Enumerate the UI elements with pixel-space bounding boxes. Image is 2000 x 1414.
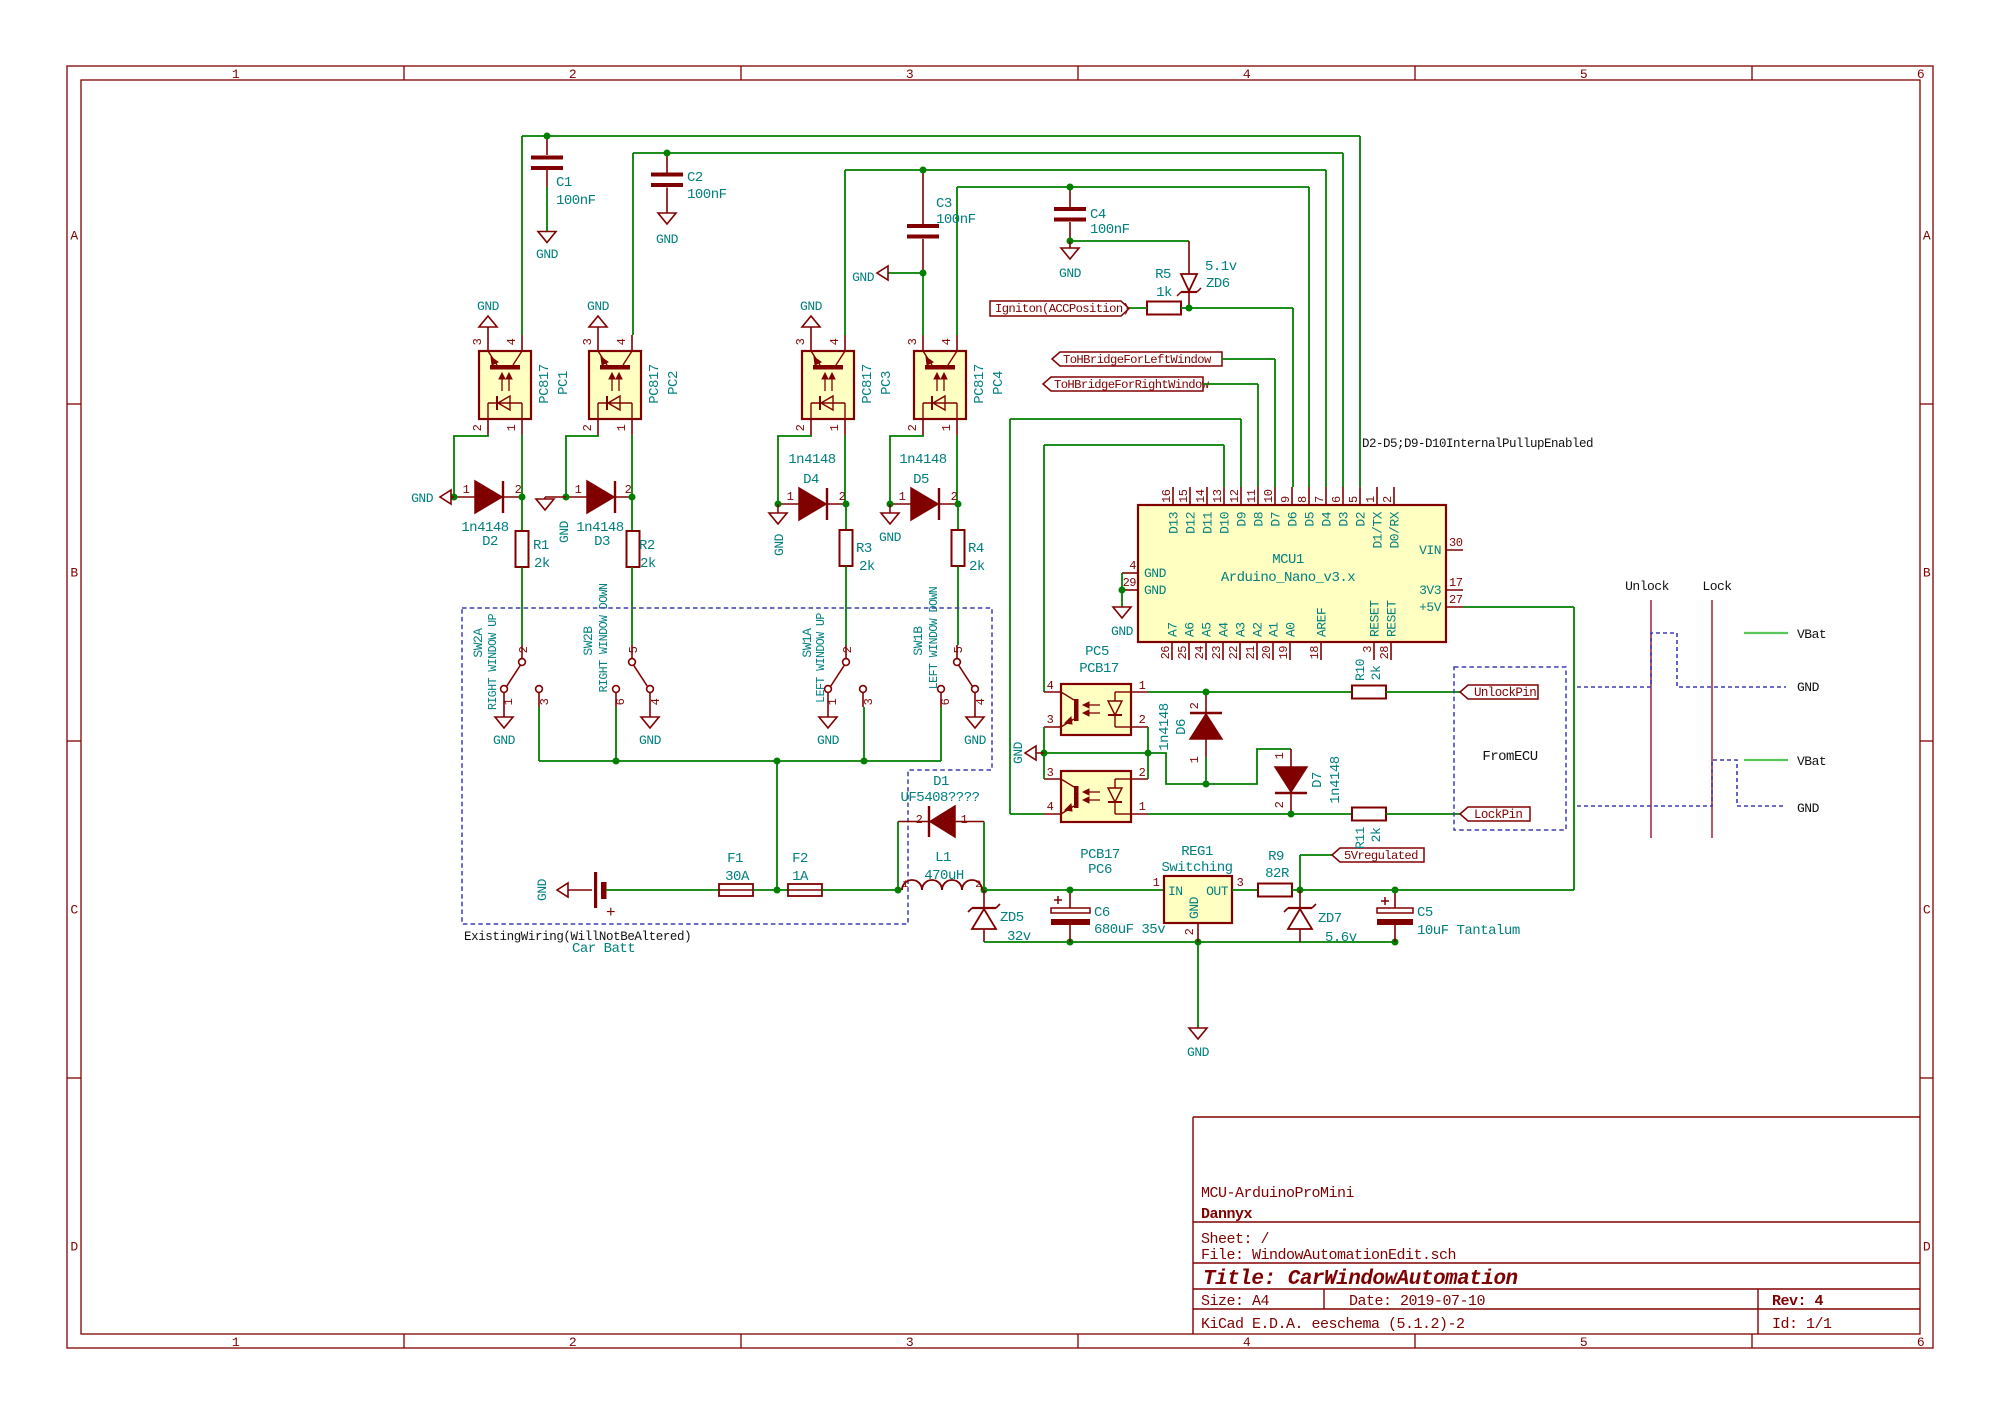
junction — [664, 150, 671, 157]
junction — [544, 133, 551, 140]
junction — [1145, 750, 1152, 757]
svg-text:1k: 1k — [1156, 285, 1172, 301]
battery Car Batt — [572, 872, 635, 957]
inductor L1 — [902, 850, 982, 891]
svg-text:RESET: RESET — [1385, 600, 1400, 637]
svg-text:4: 4 — [1129, 559, 1136, 573]
svg-text:3: 3 — [1237, 876, 1244, 890]
svg-text:2k: 2k — [534, 556, 550, 572]
svg-text:30A: 30A — [725, 869, 750, 885]
svg-text:PC4: PC4 — [991, 371, 1007, 395]
waveform VBat level marker — [1744, 632, 1788, 634]
wire — [1197, 923, 1199, 942]
svg-text:4: 4 — [1243, 67, 1251, 82]
svg-text:GND: GND — [800, 299, 823, 314]
resistor R11 — [1352, 808, 1386, 849]
junction — [1067, 184, 1074, 191]
ground — [769, 504, 787, 556]
svg-text:MCU-ArduinoProMini: MCU-ArduinoProMini — [1201, 1185, 1355, 1202]
switch SW2A — [471, 613, 552, 748]
svg-text:GND: GND — [817, 733, 840, 748]
svg-text:4: 4 — [1243, 1335, 1251, 1350]
svg-text:GND: GND — [587, 299, 610, 314]
svg-text:+5V: +5V — [1419, 600, 1442, 615]
capacitor C6 — [1051, 890, 1165, 942]
svg-text:R2: R2 — [639, 538, 655, 554]
waveform VBat label — [1797, 754, 1826, 769]
svg-text:GND: GND — [639, 733, 662, 748]
svg-text:R1: R1 — [533, 538, 549, 554]
diode D1 — [898, 774, 984, 837]
svg-text:LEFT WINDOW UP: LEFT WINDOW UP — [815, 613, 828, 703]
svg-text:6: 6 — [1330, 496, 1344, 503]
svg-text:1: 1 — [1139, 679, 1146, 693]
wire — [1070, 240, 1189, 242]
svg-text:PC2: PC2 — [666, 371, 682, 395]
svg-text:4: 4 — [940, 338, 954, 345]
wire — [1197, 942, 1199, 1028]
wire — [1292, 308, 1294, 487]
svg-text:UnlockPin: UnlockPin — [1474, 686, 1536, 700]
wire — [1573, 607, 1575, 890]
svg-text:8: 8 — [1296, 496, 1310, 503]
svg-text:VBat: VBat — [1797, 754, 1826, 769]
svg-text:D: D — [70, 1240, 78, 1255]
wire — [957, 566, 959, 645]
svg-text:28: 28 — [1378, 646, 1392, 660]
ground — [1187, 1028, 1210, 1060]
svg-text:2: 2 — [1381, 496, 1395, 503]
svg-text:PC3: PC3 — [879, 371, 895, 395]
svg-text:3: 3 — [862, 698, 876, 705]
title block — [1193, 1117, 1920, 1334]
wire — [1148, 749, 1291, 784]
wire — [776, 761, 778, 890]
svg-text:26: 26 — [1159, 646, 1173, 660]
wire — [863, 707, 865, 761]
svg-text:D2-D5;D9-D10InternalPullupEnab: D2-D5;D9-D10InternalPullupEnabled — [1362, 437, 1593, 451]
ground — [536, 497, 572, 543]
svg-text:20: 20 — [1260, 646, 1274, 660]
svg-text:PC5: PC5 — [1085, 644, 1109, 660]
svg-text:D7: D7 — [1269, 512, 1284, 527]
svg-text:PC817: PC817 — [972, 364, 988, 404]
svg-text:F2: F2 — [792, 851, 808, 867]
svg-text:GND: GND — [411, 491, 434, 506]
wire — [1205, 757, 1207, 784]
svg-text:1: 1 — [899, 490, 906, 504]
svg-text:10uF Tantalum: 10uF Tantalum — [1417, 923, 1520, 939]
junction — [1203, 781, 1210, 788]
svg-text:1n4148: 1n4148 — [788, 452, 836, 468]
svg-text:ZD5: ZD5 — [1000, 910, 1024, 926]
wire — [844, 170, 846, 335]
junction — [1195, 939, 1202, 946]
svg-text:B: B — [1923, 566, 1931, 581]
svg-text:ToHBridgeForRightWindow: ToHBridgeForRightWindow — [1054, 378, 1210, 392]
svg-text:B: B — [70, 566, 78, 581]
svg-text:RESET: RESET — [1368, 600, 1383, 637]
wire — [1121, 573, 1123, 607]
zener diode ZD7 — [1284, 890, 1357, 946]
capacitor C5 — [1377, 890, 1520, 942]
svg-text:17: 17 — [1449, 576, 1463, 590]
wire — [1274, 359, 1276, 487]
wire — [984, 889, 1164, 891]
svg-text:2k: 2k — [640, 556, 656, 572]
svg-text:2k: 2k — [859, 559, 875, 575]
svg-text:18: 18 — [1308, 646, 1322, 660]
svg-text:4: 4 — [615, 338, 629, 345]
junction — [1297, 887, 1304, 894]
svg-text:15: 15 — [1177, 489, 1191, 503]
wire — [1147, 727, 1149, 779]
svg-text:GND: GND — [536, 247, 559, 262]
svg-text:4: 4 — [974, 698, 988, 705]
svg-text:1: 1 — [232, 1335, 240, 1350]
svg-text:D2: D2 — [1354, 512, 1369, 527]
svg-text:R4: R4 — [968, 541, 984, 557]
resistor R10 — [1352, 659, 1386, 698]
svg-text:C4: C4 — [1090, 207, 1106, 223]
svg-text:4: 4 — [649, 698, 663, 705]
svg-text:1n4148: 1n4148 — [899, 452, 947, 468]
diode D3 — [566, 481, 634, 550]
waveform GND label — [1797, 680, 1820, 695]
optocoupler PC6 — [1044, 766, 1148, 878]
optocoupler PC5 — [1044, 644, 1148, 735]
svg-text:1: 1 — [232, 67, 240, 82]
wire — [1386, 813, 1460, 815]
svg-text:SW2B: SW2B — [581, 626, 596, 656]
wire — [1189, 307, 1293, 309]
svg-text:2: 2 — [1188, 702, 1202, 709]
svg-text:2k: 2k — [1369, 827, 1384, 842]
ground — [656, 213, 679, 247]
svg-text:D3: D3 — [594, 534, 610, 550]
diode D2 — [454, 481, 522, 550]
global label LockPin — [1460, 807, 1530, 822]
svg-text:GND: GND — [1059, 266, 1082, 281]
diode D5 — [890, 452, 958, 520]
svg-text:3: 3 — [538, 698, 552, 705]
wire — [1188, 241, 1190, 274]
svg-text:1: 1 — [505, 424, 519, 431]
wire — [845, 169, 1326, 171]
svg-text:D0/RX: D0/RX — [1388, 511, 1403, 548]
waveform Unlock line — [1625, 579, 1670, 838]
resistor R5 — [1129, 267, 1189, 315]
svg-text:5.6v: 5.6v — [1325, 930, 1357, 946]
svg-text:R5: R5 — [1155, 267, 1171, 283]
svg-text:2: 2 — [794, 424, 808, 431]
svg-text:3: 3 — [906, 338, 920, 345]
wire — [606, 889, 719, 891]
svg-text:3: 3 — [471, 338, 485, 345]
svg-text:D5: D5 — [1303, 512, 1318, 527]
junction — [1392, 939, 1399, 946]
svg-text:1: 1 — [502, 698, 516, 705]
svg-text:Lock: Lock — [1702, 579, 1732, 594]
svg-text:1: 1 — [940, 424, 954, 431]
wire — [845, 566, 847, 645]
svg-text:2: 2 — [517, 646, 531, 653]
svg-text:Dannyx: Dannyx — [1201, 1206, 1253, 1223]
svg-text:AREF: AREF — [1315, 608, 1330, 637]
junction — [451, 494, 458, 501]
svg-text:1: 1 — [1273, 752, 1287, 759]
svg-text:2: 2 — [581, 424, 595, 431]
capacitor C4 — [1054, 187, 1130, 241]
svg-text:GND: GND — [656, 232, 679, 247]
svg-text:1: 1 — [1153, 876, 1160, 890]
ground — [411, 490, 454, 506]
svg-text:3: 3 — [1047, 766, 1054, 780]
svg-text:1: 1 — [1139, 800, 1146, 814]
svg-text:23: 23 — [1210, 646, 1224, 660]
diode D7 — [1273, 749, 1344, 814]
ground — [536, 232, 559, 263]
svg-text:GND: GND — [852, 270, 875, 285]
svg-text:D9: D9 — [1235, 512, 1250, 527]
svg-text:9: 9 — [1279, 496, 1293, 503]
svg-text:UF5408????: UF5408???? — [900, 790, 979, 806]
wire — [1010, 813, 1044, 815]
svg-text:R3: R3 — [856, 541, 872, 557]
junction — [920, 167, 927, 174]
wire — [539, 760, 941, 762]
global label ToHBridgeForLeftWindow — [1052, 352, 1222, 367]
svg-text:1: 1 — [1188, 756, 1202, 763]
svg-text:5: 5 — [1580, 67, 1587, 82]
wire — [631, 435, 633, 497]
svg-text:VBat: VBat — [1797, 627, 1826, 642]
svg-text:2: 2 — [569, 1335, 576, 1350]
junction — [629, 494, 636, 501]
diode D4 — [778, 452, 846, 520]
svg-text:PC817: PC817 — [860, 364, 876, 404]
wire — [633, 152, 1343, 154]
svg-text:C6: C6 — [1094, 905, 1110, 921]
junction — [861, 758, 868, 765]
optocoupler PC1 — [471, 299, 572, 435]
svg-text:RIGHT WINDOW DOWN: RIGHT WINDOW DOWN — [598, 584, 611, 693]
wire — [1325, 170, 1327, 487]
svg-text:D12: D12 — [1184, 512, 1199, 534]
svg-text:VIN: VIN — [1419, 543, 1441, 558]
svg-text:FromECU: FromECU — [1482, 749, 1537, 765]
svg-text:16: 16 — [1160, 489, 1174, 503]
svg-text:3V3: 3V3 — [1419, 583, 1441, 598]
waveform GND label — [1797, 801, 1820, 816]
svg-text:GND: GND — [772, 533, 787, 556]
svg-text:12: 12 — [1228, 489, 1242, 503]
svg-text:GND: GND — [1797, 801, 1820, 816]
wire — [844, 435, 846, 504]
svg-text:1n4148: 1n4148 — [1157, 703, 1173, 751]
svg-text:D2: D2 — [482, 534, 498, 550]
svg-text:SW1A: SW1A — [800, 628, 815, 658]
resistor R1 — [516, 497, 550, 572]
junction — [955, 501, 962, 508]
wire — [940, 707, 942, 761]
svg-text:LEFT WINDOW DOWN: LEFT WINDOW DOWN — [928, 587, 941, 689]
svg-text:A3: A3 — [1234, 622, 1249, 637]
svg-text:Unlock: Unlock — [1625, 579, 1670, 594]
svg-text:D: D — [1923, 1240, 1931, 1255]
ground — [1111, 607, 1134, 639]
svg-text:REG1: REG1 — [1181, 844, 1213, 860]
global label 5Vregulated — [1332, 848, 1424, 863]
svg-text:1: 1 — [902, 880, 908, 891]
svg-text:SW1B: SW1B — [911, 626, 926, 656]
optocoupler PC3 — [794, 299, 895, 435]
ground — [1059, 241, 1082, 281]
svg-text:PC6: PC6 — [1088, 862, 1112, 878]
svg-text:GND: GND — [1187, 1045, 1210, 1060]
resistor R9 — [1258, 849, 1300, 897]
resistor R2 — [627, 497, 656, 572]
svg-text:GND: GND — [964, 733, 987, 748]
wire — [521, 136, 523, 335]
svg-text:1: 1 — [615, 424, 629, 431]
svg-text:19: 19 — [1277, 646, 1291, 660]
junction — [1203, 689, 1210, 696]
svg-text:470uH: 470uH — [924, 868, 964, 884]
wire — [984, 941, 1395, 943]
svg-text:Igniton(ACCPosition): Igniton(ACCPosition) — [995, 302, 1129, 316]
svg-text:1: 1 — [575, 483, 582, 497]
zener diode ZD6 — [1177, 259, 1237, 308]
MCU U1 Arduino_Nano_v3.x — [1122, 487, 1464, 660]
wire — [1240, 419, 1242, 487]
svg-text:KiCad E.D.A. eeschema (5.1.2): KiCad E.D.A. eeschema (5.1.2)-2 — [1201, 1316, 1465, 1333]
svg-text:File: WindowAutomationEdit.sch: File: WindowAutomationEdit.sch — [1201, 1247, 1456, 1264]
svg-text:Date: 2019-07-10: Date: 2019-07-10 — [1349, 1293, 1486, 1310]
svg-text:PC1: PC1 — [556, 371, 572, 395]
svg-text:C: C — [70, 903, 78, 918]
wire — [1342, 153, 1344, 487]
optocoupler PC2 — [581, 299, 682, 435]
svg-text:GND: GND — [493, 733, 516, 748]
svg-text:4: 4 — [1047, 679, 1054, 693]
svg-text:GND: GND — [557, 520, 572, 543]
svg-text:IN: IN — [1168, 884, 1183, 899]
svg-text:100nF: 100nF — [1090, 222, 1130, 238]
switch SW1B — [911, 587, 988, 748]
svg-text:GND: GND — [1111, 624, 1134, 639]
wire — [1043, 445, 1045, 692]
svg-text:OUT: OUT — [1206, 884, 1229, 899]
svg-text:3: 3 — [906, 1335, 913, 1350]
wire — [1043, 727, 1045, 779]
capacitor C2 — [651, 153, 727, 213]
svg-text:5: 5 — [1580, 1335, 1587, 1350]
wire — [521, 567, 523, 645]
ground — [535, 878, 592, 901]
junction — [774, 758, 781, 765]
wire — [897, 822, 899, 891]
wire — [956, 187, 958, 335]
wire — [1232, 889, 1258, 891]
svg-text:2: 2 — [1139, 766, 1146, 780]
svg-text:ToHBridgeForLeftWindow: ToHBridgeForLeftWindow — [1063, 353, 1212, 367]
wire — [1299, 855, 1301, 890]
svg-text:A1: A1 — [1267, 622, 1282, 637]
wire — [615, 707, 617, 761]
junction — [1067, 887, 1074, 894]
junction — [775, 501, 782, 508]
wire — [1463, 606, 1574, 608]
wire — [566, 435, 598, 497]
svg-text:2k: 2k — [969, 559, 985, 575]
svg-text:4: 4 — [828, 338, 842, 345]
svg-text:7: 7 — [1313, 496, 1327, 503]
junction — [1119, 587, 1126, 594]
svg-text:1: 1 — [828, 424, 842, 431]
optocoupler PC4 — [906, 335, 1007, 435]
svg-text:PCB17: PCB17 — [1080, 847, 1120, 863]
svg-text:D11: D11 — [1201, 511, 1216, 534]
svg-text:25: 25 — [1176, 646, 1190, 660]
ground — [879, 504, 902, 545]
wire — [1223, 445, 1225, 487]
svg-text:6: 6 — [614, 698, 628, 705]
svg-text:2: 2 — [1139, 713, 1146, 727]
svg-text:2: 2 — [975, 880, 981, 891]
svg-text:ZD6: ZD6 — [1206, 276, 1230, 292]
wire — [1359, 136, 1361, 487]
svg-text:10: 10 — [1262, 489, 1276, 503]
junction — [1067, 238, 1074, 245]
svg-text:3: 3 — [906, 67, 913, 82]
junction — [613, 758, 620, 765]
svg-text:1: 1 — [1364, 496, 1378, 503]
wire — [1386, 691, 1460, 693]
global label Igniton(ACCPosition) — [990, 301, 1129, 316]
svg-text:1: 1 — [826, 698, 840, 705]
wire — [1395, 889, 1574, 891]
svg-text:ZD7: ZD7 — [1318, 911, 1342, 927]
ground — [1011, 741, 1044, 764]
svg-text:5: 5 — [952, 646, 966, 653]
svg-text:5: 5 — [627, 646, 641, 653]
svg-text:680uF 35v: 680uF 35v — [1094, 922, 1165, 938]
svg-text:C1: C1 — [556, 175, 572, 191]
capacitor C3 — [907, 170, 976, 273]
svg-text:D6: D6 — [1286, 512, 1301, 527]
junction — [774, 887, 781, 894]
svg-text:A0: A0 — [1284, 622, 1299, 637]
svg-text:PC817: PC817 — [537, 364, 553, 404]
svg-text:3: 3 — [1361, 646, 1375, 653]
wire — [522, 135, 1360, 137]
svg-text:Id: 1/1: Id: 1/1 — [1772, 1316, 1832, 1333]
svg-text:4: 4 — [505, 338, 519, 345]
ground — [852, 266, 888, 285]
waveform VBat label — [1797, 627, 1826, 642]
svg-text:2k: 2k — [1369, 665, 1384, 680]
svg-text:D4: D4 — [803, 472, 819, 488]
wire — [1308, 187, 1310, 487]
diode D6 — [1157, 692, 1222, 763]
resistor R3 — [840, 504, 875, 575]
svg-text:Sheet: /: Sheet: / — [1201, 1231, 1270, 1248]
wire — [1300, 854, 1332, 856]
junction — [1392, 887, 1399, 894]
svg-text:D8: D8 — [1252, 512, 1267, 527]
wire — [454, 435, 488, 497]
